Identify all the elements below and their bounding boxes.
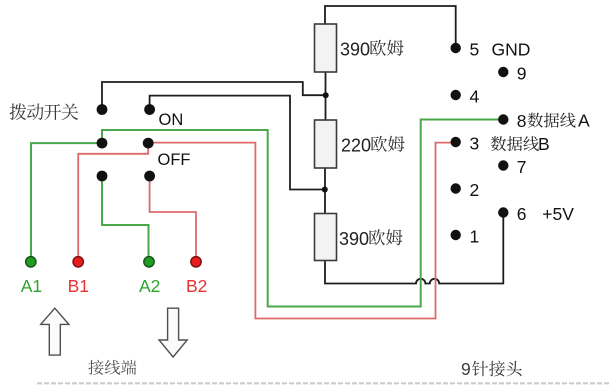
wire A2 terminal to switch pin5-left bbox=[102, 176, 149, 259]
connector J3 pin 6 bbox=[498, 204, 526, 224]
connector J3 pin 7 bbox=[498, 157, 526, 177]
connector J3 pin 9 bbox=[498, 63, 526, 83]
svg-text:A: A bbox=[578, 110, 590, 130]
terminal A1 (green) bbox=[21, 257, 42, 296]
connector J3 pin 5 bbox=[451, 39, 480, 59]
svg-text:8: 8 bbox=[517, 111, 527, 131]
value label R3 390 ohm bbox=[339, 229, 402, 249]
svg-text:390: 390 bbox=[339, 229, 369, 249]
svg-text:A1: A1 bbox=[21, 276, 42, 296]
arrow up (terminal side) bbox=[41, 308, 69, 355]
svg-text:+5V: +5V bbox=[542, 204, 574, 224]
terminal B2 (red) bbox=[186, 257, 207, 296]
svg-text:5: 5 bbox=[470, 39, 480, 59]
label toggle switch (Chinese) bbox=[10, 103, 79, 120]
svg-text:9: 9 bbox=[517, 63, 527, 83]
terminal B1 (red) bbox=[68, 257, 89, 296]
switch S1 pin3 mid-left bbox=[97, 138, 108, 149]
connector J3 pin 8 bbox=[498, 111, 526, 131]
switch S1 pin4 mid-right bbox=[143, 138, 154, 149]
node J2 (R2/R3 junction) bbox=[322, 187, 328, 193]
connector J3 pin 2 bbox=[451, 180, 480, 200]
switch S1 pin6 bottom-right bbox=[144, 171, 155, 182]
switch S1 pin2 top-right bbox=[144, 104, 155, 115]
wire R1 bottom lead through node J1 to R2 top bbox=[325, 72, 327, 120]
wire switch pin1-top to node J1 bbox=[102, 82, 324, 108]
wire B1 terminal to switch pin4-right bbox=[78, 143, 148, 259]
svg-text:ON: ON bbox=[159, 111, 184, 129]
resistor R1 390ohm bbox=[315, 24, 337, 72]
svg-text:B1: B1 bbox=[68, 276, 89, 296]
svg-text:6: 6 bbox=[517, 204, 527, 224]
svg-text:9: 9 bbox=[461, 359, 471, 379]
label GND (pin 5) bbox=[492, 39, 531, 59]
connector J3 pin 4 bbox=[451, 86, 480, 106]
resistor R3 390ohm bbox=[315, 214, 337, 261]
label terminal block (Chinese) bbox=[88, 360, 136, 375]
connector J3 pin 1 bbox=[451, 226, 480, 246]
switch S1 pin5 bottom-left bbox=[97, 171, 108, 182]
label data line A (pin 8) bbox=[528, 110, 590, 130]
wire R2 bottom lead through node J2 to R3 top bbox=[324, 168, 326, 214]
arrow down (connector side) bbox=[159, 308, 187, 357]
svg-text:2: 2 bbox=[470, 180, 480, 200]
svg-text:OFF: OFF bbox=[158, 151, 191, 169]
svg-text:GND: GND bbox=[492, 39, 531, 59]
label data line B (pin 3) bbox=[491, 134, 550, 154]
label +5V (pin 6) bbox=[542, 204, 574, 224]
switch S1 pin1 top-left bbox=[97, 104, 108, 115]
svg-text:390: 390 bbox=[340, 40, 370, 60]
svg-text:A2: A2 bbox=[139, 276, 160, 296]
label OFF bbox=[158, 151, 191, 169]
svg-text:B: B bbox=[538, 134, 550, 154]
svg-text:B2: B2 bbox=[186, 276, 207, 296]
wire data-B net: switch pin4-right to pin 3 bbox=[148, 143, 456, 319]
wire A1 terminal to switch pin3-left bbox=[31, 143, 102, 259]
svg-text:4: 4 bbox=[470, 86, 480, 106]
terminal A2 (green) bbox=[139, 257, 160, 296]
label 9-pin connector (Chinese) bbox=[461, 359, 522, 379]
wire switch pin2-top to node J2 bbox=[150, 96, 323, 190]
wire GND net: resistor R1 top to pin 5 bbox=[325, 6, 456, 46]
label ON bbox=[159, 111, 184, 129]
svg-text:3: 3 bbox=[470, 133, 480, 153]
node J1 (R1/R2 junction) bbox=[323, 92, 329, 98]
dashed bottom border bbox=[37, 382, 609, 384]
value label R1 390 ohm bbox=[340, 40, 403, 60]
svg-text:7: 7 bbox=[517, 157, 527, 177]
svg-text:1: 1 bbox=[470, 226, 480, 246]
svg-text:220: 220 bbox=[341, 136, 371, 156]
wire data-A net: switch pin3-left to pin 8 bbox=[102, 120, 502, 307]
value label R2 220 ohm bbox=[341, 136, 404, 156]
connector J3 pin 3 bbox=[451, 133, 480, 153]
wire B2 terminal to switch pin6-right bbox=[150, 176, 196, 259]
wire +5V net: R3 bottom to pin 6, with hops over green and red bbox=[325, 214, 503, 284]
resistor R2 220ohm bbox=[315, 120, 337, 168]
